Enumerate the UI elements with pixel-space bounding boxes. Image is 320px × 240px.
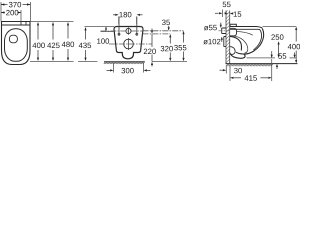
dim 435 [85, 30, 87, 59]
ext line (200) [20, 10, 22, 22]
bottom ref line (220/320/355) [152, 61, 187, 63]
dim 250 [271, 34, 283, 39]
bottom ref line (400/425/480) [30, 61, 74, 63]
trap bottom ref line (55) [247, 57, 297, 59]
top ref line (wall plane) [30, 21, 74, 23]
WC side profile: seat line [230, 28, 260, 30]
WC side profile: lid top [230, 27, 262, 29]
dim 55 (top) [221, 10, 223, 18]
top ref line (400) [263, 26, 297, 28]
ext line left (370/200) [0, 2, 2, 22]
dim 35 leader [162, 20, 170, 25]
dim 355 [182, 31, 184, 61]
dim 55 (trap height) [278, 53, 286, 58]
dim 370 [1, 4, 30, 6]
inlet stub (ø55) [222, 28, 226, 34]
WC side profile: rear bump [230, 24, 236, 26]
floor line right [226, 63, 298, 65]
dim 425 [52, 25, 54, 59]
floor line under rear view [104, 61, 145, 63]
dim 15 [231, 13, 233, 15]
floor hatch [104, 62, 145, 64]
dim 100 [105, 27, 107, 31]
trap bottom loop [230, 53, 245, 58]
ext line right (370) [29, 2, 31, 22]
outlet hole crosshair [124, 39, 134, 49]
435 top ref line [85, 26, 115, 28]
435 bottom ref line [78, 61, 98, 63]
dash line right upper [143, 30, 184, 32]
wall hatched band [226, 11, 230, 64]
trap outer (upper pipe) [230, 36, 242, 50]
trap inner [230, 47, 235, 55]
100 ref line [101, 31, 114, 33]
dim 320 [169, 34, 171, 61]
water spot [9, 35, 17, 43]
WC side profile: front face [236, 29, 264, 54]
dim 30 (wall thickness) [226, 66, 230, 74]
pan outer outline [2, 22, 31, 65]
label ø55 with leader [204, 25, 217, 30]
inlet hole crosshair [126, 28, 131, 33]
dim 400 [37, 25, 39, 59]
flush elbow at rear [230, 28, 237, 36]
pan rear band line [2, 24, 31, 26]
fixing slot right [136, 17, 138, 36]
floor hatch right [226, 64, 273, 66]
ext line 415 right / trap [271, 51, 273, 58]
rim inner line [237, 31, 253, 35]
fixing slot left [118, 17, 120, 36]
dim 220 [151, 29, 153, 67]
rear outline [114, 27, 143, 59]
dim 480 [67, 25, 69, 59]
dim 300 [114, 63, 144, 73]
label ø102 with leader [203, 39, 220, 45]
dim 180 [118, 17, 120, 25]
front inner line [253, 30, 261, 50]
dim 400 (right) [295, 27, 297, 64]
band tick 1 [20, 22, 22, 26]
band tick 2 [25, 22, 27, 26]
dim 200 [1, 12, 21, 14]
axis dash line (inlet) [101, 30, 143, 32]
inlet axis dash [219, 30, 231, 32]
dash line right lower [143, 33, 171, 35]
bowl inner surface [234, 36, 248, 53]
axis dash line (outlet) [109, 43, 152, 45]
bowl inner oval [5, 29, 28, 62]
outlet stub (ø102) [224, 37, 226, 47]
dim 415 [271, 59, 273, 81]
